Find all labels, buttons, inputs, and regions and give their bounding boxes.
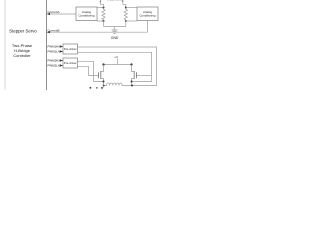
- node left source junction: [103, 81, 105, 83]
- wire pre1 out1 (gate path right FET source): [78, 47, 157, 86]
- arrow PWM1H: [60, 45, 63, 47]
- node right source junction: [131, 81, 133, 83]
- wire PWM1L: [59, 51, 64, 53]
- node low-side stub B: [96, 87, 98, 89]
- transistor Q1 (left high-side): [99, 71, 101, 79]
- controller block U1 right edge: [46, 0, 48, 90]
- wire PWM2H: [59, 60, 64, 62]
- wire gnd stub: [114, 27, 116, 31]
- wire source left FET: [101, 79, 104, 86]
- controller block label: [9, 29, 37, 59]
- arrow hook A tip: [100, 0, 102, 2]
- arrow CurrentB into block: [47, 31, 50, 33]
- driver block: pre-driver 2: [63, 58, 78, 68]
- arrow PWM2L: [60, 64, 63, 66]
- transistor Q2 (right high-side): [134, 71, 136, 79]
- node winding right junction: [131, 85, 133, 87]
- wire CurrentA: [48, 13, 77, 15]
- node A bottom junction: [103, 20, 105, 22]
- inductor motor winding: [104, 83, 132, 86]
- wire cond-B bottom tap: [126, 20, 137, 22]
- wire gnd rail: [104, 26, 126, 28]
- wire cond-B top tap: [126, 7, 137, 9]
- node low-side stub C: [101, 87, 103, 89]
- node rail left junction: [102, 63, 104, 65]
- left faint figure border: [4, 0, 6, 90]
- arrow CurrentA into block: [47, 13, 50, 15]
- wire phase-B feed hook: [123, 0, 126, 8]
- resistor R-senseB: [124, 8, 127, 20]
- svg-text:Stepper Servo: Stepper Servo: [9, 29, 37, 34]
- wire drain left FET: [101, 65, 104, 72]
- wire cond-A bottom to sense resistor A: [97, 20, 104, 22]
- wire cond-A top to sense resistor A: [97, 7, 104, 9]
- node winding left junction: [103, 85, 105, 87]
- wire low-side continuation left: [103, 86, 105, 88]
- op-amp block: analog conditioning B: [137, 7, 158, 21]
- node rail right junction: [130, 63, 132, 65]
- wire CurrentB: [48, 31, 148, 33]
- wire cond-B output down: [147, 21, 149, 33]
- svg-text:Controller: Controller: [13, 53, 31, 58]
- svg-text:Pre-driver: Pre-driver: [64, 61, 77, 65]
- wire PWM2L: [59, 65, 64, 67]
- wire R-senseA bottom to gnd rail: [103, 21, 105, 27]
- ground: [112, 30, 118, 33]
- node low-side stub A: [89, 87, 91, 89]
- wire PWM1H: [59, 46, 64, 48]
- wire pre2 out2 (gate left FET): [78, 66, 99, 75]
- wire gate lead right FET: [137, 75, 152, 77]
- arrow hook B tip: [122, 0, 124, 2]
- op-amp block: analog conditioning A: [76, 7, 97, 21]
- svg-text:Pre-driver: Pre-driver: [64, 47, 77, 51]
- svg-text:+V: +V: [114, 55, 118, 59]
- wire source right FET: [132, 79, 135, 86]
- svg-text:Conditioning: Conditioning: [78, 14, 94, 18]
- node B top junction: [125, 7, 127, 9]
- node B bottom junction: [125, 20, 127, 22]
- wire R-senseB bottom to gnd rail: [125, 21, 127, 27]
- wire pre1 out2 (gate right FET): [78, 52, 152, 81]
- wire +V stub: [117, 59, 119, 65]
- resistor R-senseA: [102, 8, 105, 20]
- wire drain right FET: [132, 65, 135, 72]
- wire phase-A feed hook: [100, 0, 103, 8]
- svg-text:Conditioning: Conditioning: [139, 14, 155, 18]
- wire +V rail: [104, 64, 132, 66]
- node A top junction: [103, 7, 105, 9]
- svg-text:Phase Wiring: Phase Wiring: [107, 0, 123, 2]
- wire pre2 out1 (source return left FET): [78, 61, 104, 81]
- arrow PWM1L: [60, 50, 63, 52]
- arrow PWM2H: [60, 59, 63, 61]
- driver block: pre-driver 1: [63, 44, 78, 54]
- svg-text:GND: GND: [111, 36, 119, 40]
